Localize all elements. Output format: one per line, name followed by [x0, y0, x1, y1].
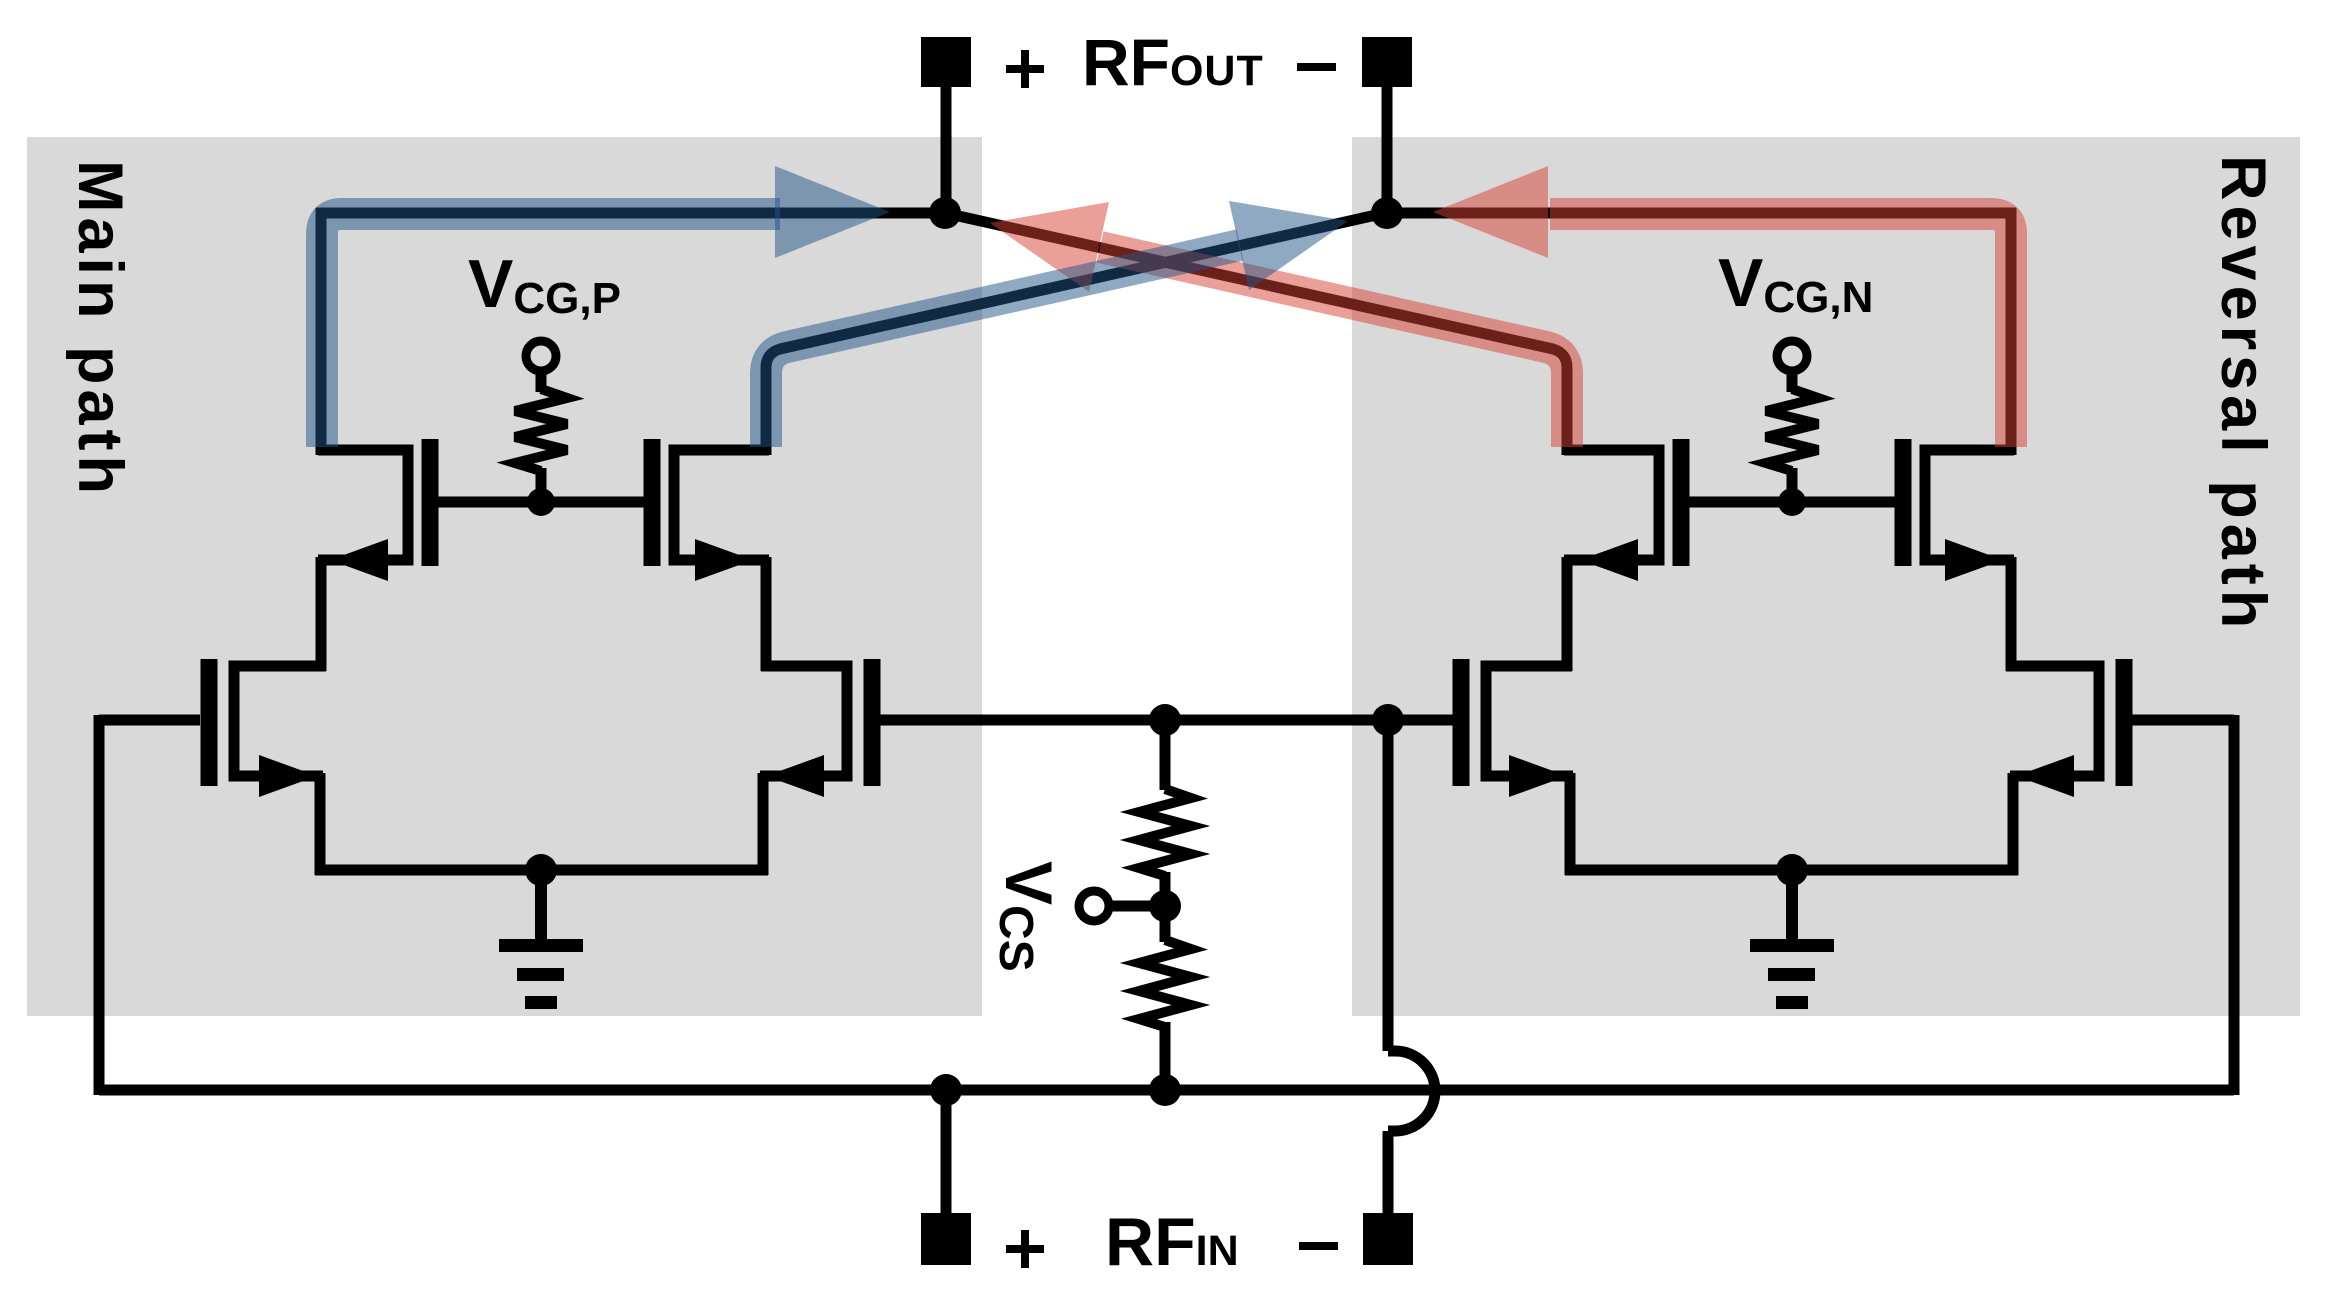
transistor M1' source arrow: [2016, 755, 2074, 797]
wire diagonal from RFOUT- node to M4 drain: [766, 213, 1385, 455]
wire top-left vertical (M3 drain to RFOUT+ rail): [316, 208, 327, 455]
resistor R3 (Vcs upper): [1139, 789, 1191, 876]
transistor M3 gate bar: [422, 439, 439, 566]
transistor M1 channel and legs: [234, 666, 326, 776]
wire Vcs chain bottom: [1160, 1022, 1171, 1090]
node right source rail: [1776, 854, 1808, 886]
ground right: [1750, 882, 1834, 1009]
transistor M4 channel and legs: [674, 450, 769, 560]
label minus RFIN: [1299, 1242, 1338, 1250]
wire hop over RFIN bus: [1388, 1051, 1435, 1131]
wire left outer rail: [94, 715, 105, 1095]
transistor M4' source arrow: [1580, 539, 1638, 581]
wire diagonal from RFOUT+ node to M4' drain: [945, 213, 1567, 455]
svg-text:Reversal path: Reversal path: [2208, 155, 2278, 633]
transistor M2 channel and legs: [760, 666, 847, 776]
wire M3' source to M1' drain: [2006, 557, 2017, 671]
wire Vcs chain top: [1160, 720, 1171, 790]
resistor R4 (Vcs lower): [1139, 940, 1191, 1027]
transistor M4' gate bar: [1673, 439, 1690, 566]
wire M1' source drop: [2008, 773, 2019, 875]
transistor M2 source arrow: [766, 755, 824, 797]
node inner gate bus / Vcs chain: [1149, 704, 1181, 736]
wire M4' source to M2' drain: [1562, 557, 1573, 671]
label plus RFIN: [1006, 1230, 1044, 1268]
wire RFOUT- pad stub: [1382, 87, 1393, 218]
signal path blue band (main, top): [322, 166, 890, 447]
signal path blue band (main, diagonal): [766, 201, 1348, 447]
Main path shaded region: [27, 137, 982, 1016]
transistor M1' gate bar: [2116, 659, 2133, 786]
signal path red band (reversal, diagonal): [990, 202, 1567, 447]
wire right common-source rail: [1565, 865, 2018, 876]
resistor R2 (VCG,N bias): [1766, 389, 1818, 471]
wire cascode gate bus right: [1689, 497, 1895, 508]
pad RFIN+: [921, 1213, 971, 1265]
node RFOUT+: [929, 197, 961, 229]
wire top-right horizontal to RFOUT- node: [1387, 208, 2016, 219]
transistor M2' gate bar: [1453, 659, 1470, 786]
pad RFOUT-: [1362, 37, 1412, 87]
transistor M1' channel and legs: [2006, 666, 2099, 776]
label minus RFOUT: [1297, 63, 1336, 71]
node Vcs chain bottom: [1149, 1074, 1181, 1106]
transistor M3' source arrow: [1945, 539, 2003, 581]
transistor M1 gate bar: [201, 659, 218, 786]
wire M1 gate lead: [99, 715, 200, 726]
node VCG,N gate bus: [1778, 488, 1806, 516]
wire right outer rail: [2229, 715, 2240, 1095]
wire top-right vertical (M3' drain to RFOUT- rail): [2006, 208, 2017, 455]
transistor M4 source arrow: [695, 539, 753, 581]
wire top-left horizontal to RFOUT+ node: [316, 208, 945, 219]
wire cascode gate bus left: [438, 497, 644, 508]
ground left: [499, 882, 583, 1009]
wire M3 source to M1 drain: [316, 557, 327, 671]
node RFIN+: [930, 1074, 962, 1106]
wire M1' gate lead: [2132, 715, 2234, 726]
transistor M2' channel and legs: [1486, 666, 1573, 776]
transistor M1 source arrow: [259, 755, 317, 797]
node Vcs tap: [1149, 890, 1181, 922]
wire RFIN+ stub: [941, 1090, 952, 1216]
wire M2' source drop: [1565, 773, 1576, 875]
wire inner gate bus M2 to M2': [880, 715, 1453, 726]
transistor M3' gate bar: [1895, 439, 1912, 566]
transistor M2' source arrow: [1509, 755, 1567, 797]
transistor M3 channel and legs: [318, 450, 408, 560]
Reversal path shaded region: [1352, 137, 2300, 1016]
label plus RFOUT: [1006, 50, 1044, 88]
node left source rail: [525, 854, 557, 886]
terminal VCG,N: [1777, 341, 1807, 371]
pad RFIN-: [1363, 1213, 1413, 1265]
wire M2 source drop: [758, 773, 769, 875]
svg-text:Main path: Main path: [65, 160, 135, 499]
node VCG,P gate bus: [527, 488, 555, 516]
wire Vcs chain middle: [1160, 872, 1171, 942]
resistor R1 (VCG,P bias): [515, 389, 567, 471]
wire RFIN- branch upper: [1383, 720, 1394, 1051]
wire M4 source to M2 drain: [761, 557, 772, 671]
transistor M4' channel and legs: [1564, 450, 1659, 560]
terminal Vcs: [1079, 891, 1109, 921]
wire RFOUT+ pad stub: [941, 87, 952, 218]
pad RFOUT+: [921, 37, 971, 87]
wire left common-source rail: [315, 865, 768, 876]
wire M1 source drop: [315, 773, 326, 875]
transistor M3 source arrow: [330, 539, 388, 581]
wire Vcs terminal stub: [1110, 901, 1165, 912]
terminal VCG,P: [526, 341, 556, 371]
signal path red band (reversal, top): [1433, 166, 2011, 447]
wire RFIN- branch lower: [1383, 1131, 1394, 1216]
transistor M2 gate bar: [864, 659, 881, 786]
transistor M4 gate bar: [644, 439, 661, 566]
wire bottom RFIN bus: [99, 1085, 2234, 1096]
transistor M3' channel and legs: [1925, 450, 2014, 560]
node inner gate bus / RFIN- branch: [1372, 704, 1404, 736]
node RFOUT-: [1371, 197, 1403, 229]
